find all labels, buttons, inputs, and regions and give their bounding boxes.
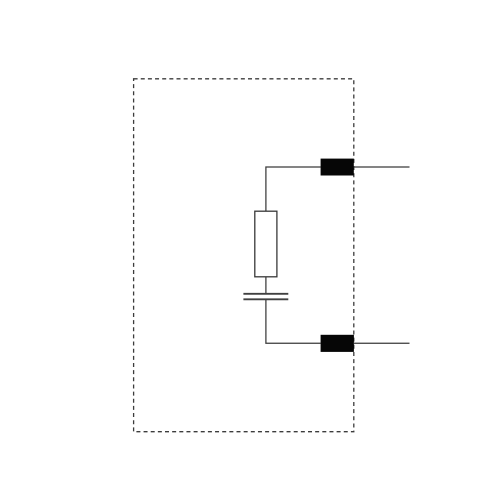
enclosure (dashed boundary box) [134, 79, 354, 432]
wire (bottom lead exiting enclosure to the right) [354, 342, 410, 344]
wire (resistor bottom to capacitor top plate) [265, 277, 267, 294]
wire (top lead exiting enclosure to the right) [354, 166, 410, 168]
terminal T2 (bottom black block) [321, 335, 354, 352]
terminal T1 (top black block) [321, 159, 354, 176]
resistor R1 (box symbol) [255, 211, 277, 277]
wire (capacitor bottom plate down, then right to terminal T2) [266, 300, 321, 343]
wire (top node: from resistor top up to corner, then right to terminal T1) [266, 167, 321, 211]
capacitor C1 (parallel plates) [243, 294, 288, 300]
